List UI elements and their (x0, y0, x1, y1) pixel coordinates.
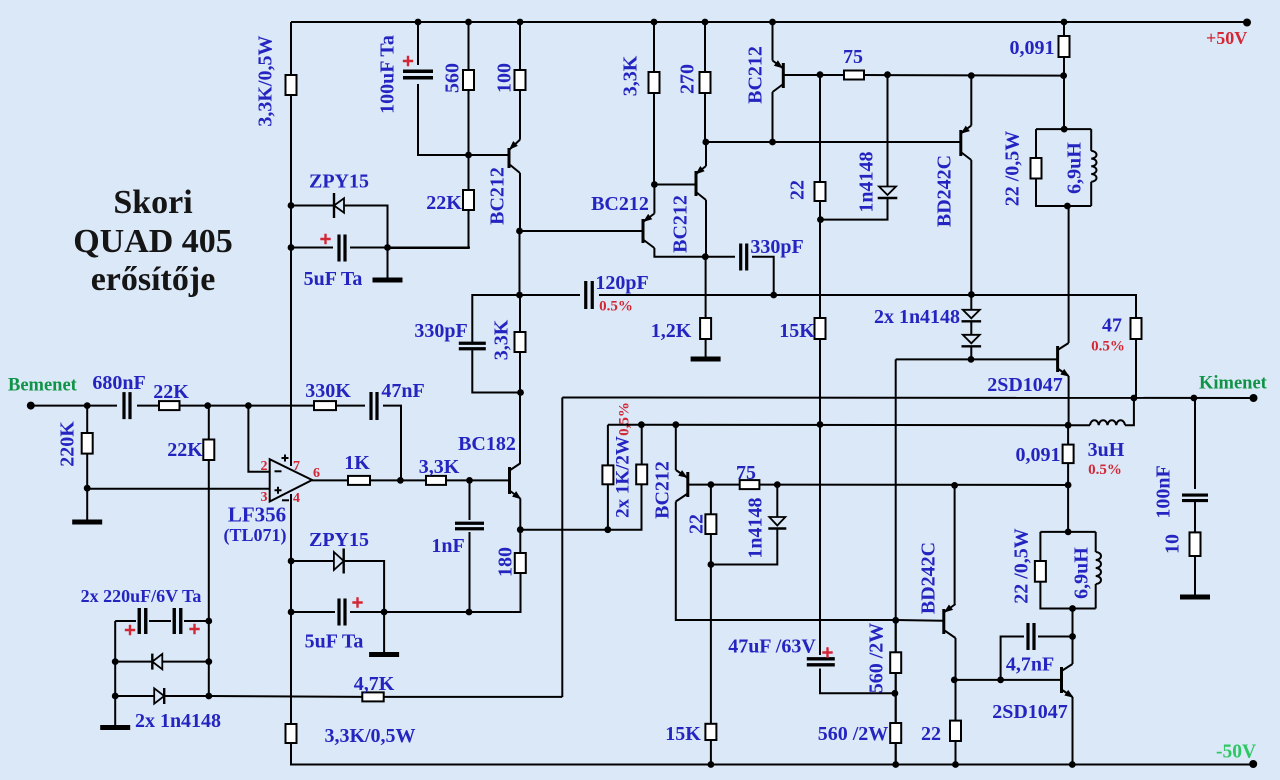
svg-text:4: 4 (293, 491, 300, 506)
wire opamp out row (312, 479, 509, 481)
junction y=425 x=675.8 (672, 421, 679, 428)
svg-text:22 /0,5W: 22 /0,5W (1002, 131, 1024, 207)
junction rowB right (205, 658, 212, 665)
svg-text:BD242C: BD242C (918, 542, 940, 614)
resistor 100 (515, 70, 526, 90)
svg-text:22: 22 (686, 514, 708, 534)
junction x=291 5uF row (288, 244, 295, 251)
wire 270 branch (704, 22, 706, 142)
resistor 47 (1131, 318, 1142, 339)
op-amp minus mark pin2 (275, 470, 282, 472)
junction 330pF2 drop (770, 292, 777, 299)
junction y=485 x=711 (708, 481, 715, 488)
svg-text:3,3K: 3,3K (620, 55, 642, 96)
polarity + 100uF Ta (403, 56, 413, 66)
wire 15K top branch (819, 338, 821, 340)
wire inv input drop (248, 406, 269, 472)
wire vbe-multiplier row y=424.7 (608, 424, 1068, 427)
junction y=485 x=777 (774, 481, 781, 488)
svg-text:22K: 22K (167, 439, 203, 461)
svg-text:47uF /63V: 47uF /63V (728, 636, 816, 658)
capacitor 120pF (586, 281, 593, 309)
svg-text:6,9uH: 6,9uH (1071, 547, 1093, 599)
wire Q4 emitter from rail (772, 22, 774, 61)
junction rowC left (112, 693, 119, 700)
svg-text:1K: 1K (344, 452, 370, 474)
node terminal -50V (1249, 760, 1257, 768)
resistor 22K input (159, 401, 180, 410)
transistor Q4 BC212 right (782, 63, 785, 88)
op-amp plus mark pin7 (282, 455, 289, 462)
wire 1n4148 branch x=888 (820, 75, 888, 220)
capacitor 680nF (124, 392, 130, 419)
wire bottom rail -50V (291, 743, 1254, 765)
svg-text:0.5%: 0.5% (1091, 339, 1125, 355)
wire Q6 emitter stub (675, 425, 677, 470)
svg-text:330pF: 330pF (414, 320, 467, 342)
wire ground stub 5uF2 (383, 612, 385, 652)
capacitor 47uF/63V (807, 659, 835, 665)
svg-text:QUAD 405: QUAD 405 (73, 223, 233, 260)
junction Q9 collector node (951, 677, 958, 684)
svg-text:15K: 15K (779, 320, 815, 342)
svg-text:4,7K: 4,7K (354, 673, 395, 695)
junction bridge node (1065, 422, 1072, 429)
svg-text:75: 75 (736, 462, 756, 484)
junction input x=248 (245, 402, 252, 409)
svg-text:3,3K: 3,3K (491, 319, 513, 360)
polarity + 5uF Ta bottom (352, 597, 362, 607)
op-amp minus mark pin4 (282, 499, 289, 501)
wire first-stage row y=142 (705, 141, 961, 143)
capacitor 5uF Ta bottom (339, 599, 345, 626)
svg-text:270: 270 (677, 64, 699, 94)
wire Q7 emitter stub (970, 76, 972, 126)
diode ZPY15 bottom (334, 552, 344, 570)
junction 22/1n4148 lower (708, 561, 715, 568)
diode 1n4148 pair B (963, 335, 980, 344)
resistor 3,3K mid (515, 332, 526, 352)
svg-text:erősítője: erősítője (91, 261, 216, 298)
wire 1nF branch (469, 480, 471, 612)
svg-text:BD242C: BD242C (934, 155, 956, 227)
svg-text:47nF: 47nF (381, 380, 424, 402)
resistor 330K (314, 401, 336, 410)
junction top rail x=1064 (1061, 19, 1068, 26)
resistor 560/2W lower (890, 723, 901, 743)
wire 560/2W no1 branch (895, 620, 897, 765)
junction y=75 x=971.3 (968, 72, 975, 79)
resistor 0,091 top (1059, 36, 1070, 57)
junction output/100nF (1191, 395, 1198, 402)
wire Q10 emitter down (1072, 697, 1074, 765)
wire 100nF branch (1194, 398, 1196, 595)
svg-text:22K: 22K (426, 192, 462, 214)
capacitor 220uF b (174, 608, 181, 634)
junction base row x=654 (651, 181, 658, 188)
svg-text:2x 1n4148: 2x 1n4148 (135, 710, 221, 732)
resistor 15K lower (705, 724, 716, 740)
diode 1n4148 pair A (963, 310, 980, 319)
transistor Q3 BC212 middle (695, 171, 698, 196)
wire RL1 frame (1036, 129, 1091, 206)
svg-text:+50V: +50V (1206, 28, 1247, 48)
wire Q4 base row y=75 (783, 74, 1063, 77)
ground 10 (1180, 595, 1210, 600)
junction top rail x=520 (517, 19, 524, 26)
svg-text:0,5%: 0,5% (616, 402, 632, 436)
resistor 0,091 bottom (1063, 445, 1074, 464)
resistor 1K (348, 476, 370, 485)
svg-text:680nF: 680nF (92, 372, 145, 394)
wire emitter row y=529.7 (520, 484, 641, 529)
junction 220uF/22K (205, 618, 212, 625)
wire 220K branch (86, 406, 88, 520)
svg-text:2x 1K/2W: 2x 1K/2W (612, 436, 633, 518)
wire output rail (562, 397, 1253, 400)
transistor Q6 BC212 lower (686, 472, 689, 497)
wire ground stub ZPY15 top (387, 248, 389, 279)
wire Q3 base row (654, 184, 696, 186)
wire Q10 collector up (1072, 609, 1074, 665)
op-amp plus mark pin3 (275, 487, 282, 494)
capacitor 4,7nF (1028, 623, 1034, 650)
wire 4,7nF right branch (1038, 636, 1073, 638)
wire 4,7K row (209, 695, 563, 698)
ground ZPY15 top (373, 278, 403, 283)
wire RL2 frame (1040, 532, 1095, 609)
wire output rail left drop (561, 398, 563, 698)
wire ZPY15 top row (291, 206, 388, 248)
wire Q2 base row y=231 (520, 230, 643, 232)
capacitor 100uF Ta (403, 71, 433, 78)
resistor 220K (82, 433, 93, 454)
capacitor 330pF left (459, 343, 486, 349)
svg-text:BC212: BC212 (745, 46, 767, 104)
resistor 75 bottom (740, 480, 760, 489)
junction 1nF bottom (466, 609, 473, 616)
svg-text:10: 10 (1162, 534, 1184, 554)
svg-text:560: 560 (442, 63, 464, 93)
svg-text:BC212: BC212 (652, 461, 674, 519)
node RL1 top (1061, 126, 1068, 133)
wire 100uF Ta branch (418, 22, 509, 155)
resistor 22/0,5W top (1031, 158, 1042, 179)
wire 22 lower branch (710, 485, 712, 765)
resistor 1,2K (700, 318, 711, 339)
wire noninv row (87, 488, 270, 490)
svg-text:22K: 22K (153, 381, 189, 403)
junction output/3uH (1131, 395, 1138, 402)
wire 180 branch (519, 530, 521, 553)
junction 5uF/ground node (384, 244, 391, 251)
transistor Q1 BC212 (508, 148, 511, 168)
wire ground stub left pair (114, 696, 116, 725)
junction 4,7nF left (997, 677, 1004, 684)
svg-text:0.5%: 0.5% (599, 299, 633, 315)
transistor Q10 2SD1047 lower (1060, 667, 1063, 693)
junction 4,7nF right (1069, 633, 1076, 640)
junction bottom rail x=711 (708, 761, 715, 768)
junction y=75 x=887.5 (884, 71, 891, 78)
node RL1 bottom (1064, 203, 1071, 210)
svg-text:15K: 15K (665, 723, 701, 745)
junction 2x1n4148 top (968, 291, 975, 298)
resistor 180 (515, 553, 526, 573)
junction 220K top (84, 485, 91, 492)
wire 1K/2W no2 top stub (641, 425, 643, 465)
svg-text:180: 180 (495, 547, 517, 577)
capacitor 100nF (1182, 495, 1208, 501)
wire pin4 column x=291 down to bottom rail (290, 494, 292, 724)
svg-text:6,9uH: 6,9uH (1064, 142, 1086, 194)
inductor 6,9uH top (1091, 151, 1096, 182)
junction pin4/5uF (288, 609, 295, 616)
wire Q5 emitter down (519, 499, 521, 530)
junction y=142 x=772.5 (769, 139, 776, 146)
wire Q8 collector up (1068, 206, 1070, 343)
resistor 22 lower (705, 514, 716, 534)
capacitor 47nF (371, 392, 377, 420)
svg-text:BC212: BC212 (487, 167, 509, 225)
wire ZPY15 bottom row (291, 561, 384, 612)
resistor 22 bottom (950, 721, 961, 741)
junction 1K/2W bottoms (604, 526, 611, 533)
svg-text:BC212: BC212 (670, 195, 692, 253)
svg-text:ZPY15: ZPY15 (309, 171, 369, 193)
resistor 3,3K/0,5W top (286, 75, 297, 95)
junction y=425 x=641.7 (638, 421, 645, 428)
svg-text:1n4148: 1n4148 (745, 497, 767, 558)
junction y=142 x=705 (702, 139, 709, 146)
svg-text:1n4148: 1n4148 (856, 151, 878, 212)
junction 5uF2 ground node (381, 609, 388, 616)
junction input x=87 (84, 402, 91, 409)
svg-text:3,3K/0,5W: 3,3K/0,5W (255, 35, 277, 126)
svg-text:0,091: 0,091 (1016, 444, 1061, 466)
svg-text:220K: 220K (57, 421, 79, 467)
wire 2x1n4148 column (970, 295, 972, 360)
transistor Q8 2SD1047 (1056, 346, 1059, 372)
svg-text:0,091: 0,091 (1010, 37, 1055, 59)
ground 1,2K (691, 357, 721, 362)
junction x=291 ZPY15 row (288, 202, 295, 209)
diode ZPY15 top (334, 198, 344, 212)
op-amp LF356 (270, 459, 312, 501)
junction bottom rail x=1072.5 (1069, 761, 1076, 768)
diode 1n4148 left pair A (152, 654, 162, 669)
svg-text:2SD1047: 2SD1047 (992, 701, 1068, 723)
wire 3uH row (1068, 398, 1134, 425)
wire Q9 base stub (896, 619, 944, 622)
wire 22 branch x=820 (819, 75, 821, 425)
junction Q5 emitter node (517, 526, 524, 533)
svg-text:LF356: LF356 (228, 503, 286, 527)
junction feedback/out (397, 477, 404, 484)
transistor Q2 BC212 left (642, 219, 645, 243)
resistor 4,7K (362, 692, 383, 701)
wire Q2 collector to node (654, 248, 705, 257)
svg-text:22: 22 (921, 723, 941, 745)
junction input x=208 (204, 402, 211, 409)
junction 2x1n4148 bottom (968, 356, 975, 363)
svg-text:5uF Ta: 5uF Ta (304, 268, 363, 290)
polarity + 47uF (822, 647, 832, 657)
svg-text:5uF Ta: 5uF Ta (305, 631, 364, 653)
wire 1,2K branch (705, 257, 707, 357)
svg-text:560 /2W: 560 /2W (818, 723, 889, 745)
diode 1n4148 lower (769, 517, 785, 526)
svg-text:-50V: -50V (1216, 742, 1256, 763)
wire 4,7nF left branch (1001, 637, 1024, 680)
svg-text:Kimenet: Kimenet (1199, 374, 1268, 394)
wire 120pF node row (520, 295, 1137, 318)
transistor Q5 BC182 (508, 467, 511, 494)
wire bridge node column (1067, 425, 1069, 532)
junction Q6coll/560 top (892, 617, 899, 624)
transistor Q7 BD242C (959, 130, 962, 156)
inductor 6,9uH lower (1096, 552, 1101, 584)
wire Q6 collector down (676, 502, 896, 621)
svg-text:0.5%: 0.5% (1088, 462, 1122, 478)
resistor 1K/2W no2 (636, 465, 647, 485)
svg-text:6: 6 (313, 466, 320, 481)
wire +50V rail (291, 21, 1247, 23)
svg-text:47: 47 (1102, 315, 1122, 337)
node terminal Kimenet (1250, 394, 1258, 402)
ground 5uF bottom (369, 652, 399, 657)
wire 22K mid branch (208, 406, 210, 696)
resistor 270 (700, 72, 711, 93)
wire 560 branch (388, 22, 469, 248)
wire 1K/2W no1 (607, 425, 609, 530)
svg-text:1nF: 1nF (431, 535, 464, 557)
polarity + 220uF a (125, 625, 135, 635)
wire 3,3K top branch (653, 22, 655, 185)
wire Q1 collector down (519, 173, 521, 231)
svg-text:4,7nF: 4,7nF (1006, 654, 1054, 676)
junction bottom rail x=895.7 (892, 761, 899, 768)
junction y=75 x=1063.6 (1060, 72, 1067, 79)
junction y=485 x=954.6 (951, 482, 958, 489)
junction 22/1n4148 bottom (817, 216, 824, 223)
wire Q7 collector down (970, 160, 972, 294)
svg-text:100uF Ta: 100uF Ta (377, 35, 399, 114)
resistor 10 (1190, 532, 1201, 556)
wire driver base row y=359 (896, 359, 1058, 764)
wire Q9 collector down (955, 638, 957, 765)
junction top rail x=418 (415, 19, 422, 26)
svg-text:2SD1047: 2SD1047 (987, 374, 1063, 396)
wire input row (31, 406, 401, 481)
node terminal Bemenet (27, 402, 35, 410)
ground left pair (100, 725, 130, 730)
wire 220uF row (115, 621, 209, 696)
transistor Q9 BD242C lower (942, 609, 945, 634)
svg-text:22: 22 (787, 180, 809, 200)
svg-text:(TL071): (TL071) (224, 525, 287, 546)
junction bottom rail x=955 (952, 761, 959, 768)
wire Q3 emitter stub (705, 142, 707, 166)
resistor 3,3K/0,5W bottom (286, 724, 297, 743)
wire 47 bottom to rail (1135, 339, 1137, 398)
junction top rail x=705 (702, 19, 709, 26)
node RL2 top (1065, 529, 1072, 536)
wire Q2 emitter stub (653, 185, 655, 214)
diode 1n4148 top (879, 187, 896, 196)
wire Q2base-collector column (472, 231, 520, 464)
junction y=425 x=820 (817, 421, 824, 428)
resistor 3,3K base (426, 476, 446, 485)
svg-text:330pF: 330pF (750, 236, 803, 258)
wire Q9 emitter stub (954, 485, 956, 604)
wire 5uF bottom row (291, 573, 521, 612)
capacitor 5uF Ta top (339, 235, 345, 262)
junction Q1-collector/Q2-base (516, 228, 523, 235)
junction top rail x=772.5 (769, 19, 776, 26)
wire 1n4148 lower branch (711, 485, 777, 565)
svg-text:100nF: 100nF (1153, 465, 1175, 518)
resistor 22K below 560 (463, 190, 474, 210)
inductor 3uH (1090, 420, 1125, 425)
svg-text:3uH: 3uH (1088, 439, 1125, 461)
ground 220K (72, 520, 102, 525)
resistor 560/2W upper (890, 652, 901, 673)
junction top rail x=654 (651, 19, 658, 26)
junction 560/47uF node (892, 690, 899, 697)
svg-text:22 /0,5W: 22 /0,5W (1011, 528, 1033, 604)
capacitor 220uF a (139, 608, 146, 634)
polarity + 5uF Ta top (320, 234, 330, 244)
resistor 22 top (815, 182, 826, 201)
svg-text:BC182: BC182 (458, 433, 516, 455)
resistor 22K mid (203, 440, 214, 461)
svg-text:560 /2W: 560 /2W (866, 623, 888, 694)
diode 1n4148 left pair B (154, 688, 164, 703)
node RL2 bottom (1069, 605, 1076, 612)
svg-text:3,3K/0,5W: 3,3K/0,5W (324, 725, 415, 747)
wire Q6 base row (688, 484, 1068, 486)
svg-text:1,2K: 1,2K (651, 320, 692, 342)
wire left supply column x=291 (pin7 feed) (290, 22, 292, 466)
junction collectors node (702, 253, 709, 260)
svg-text:7: 7 (293, 459, 300, 474)
junction pin4/ZPY15 (288, 558, 295, 565)
wire 5uF top row (291, 247, 470, 249)
junction x=519.5 y=295 (516, 292, 523, 299)
capacitor 1nF (455, 523, 484, 529)
wire Q4 collector down (772, 92, 774, 142)
resistor 1K/2W no1 (602, 465, 613, 484)
junction y=485 x=1068 (1065, 482, 1072, 489)
wire lower driver base row (954, 679, 1061, 681)
svg-text:BC212: BC212 (591, 193, 649, 215)
polarity + 220uF b (189, 624, 199, 634)
junction 560/100uF row (465, 152, 472, 159)
node terminal +50V (1243, 19, 1251, 27)
wire 100 branch (519, 22, 521, 140)
svg-text:2x 1n4148: 2x 1n4148 (874, 306, 960, 328)
resistor 560 (463, 70, 474, 90)
svg-text:100: 100 (494, 63, 516, 93)
svg-text:120pF: 120pF (595, 272, 648, 294)
junction top rail x=468.5 (465, 19, 472, 26)
wire diode row C (115, 695, 209, 697)
capacitor 330pF right (741, 244, 747, 271)
svg-text:Skori: Skori (113, 184, 192, 221)
wire Q8 emitter down (1068, 376, 1070, 425)
resistor 22/0,5W lower (1035, 561, 1046, 582)
